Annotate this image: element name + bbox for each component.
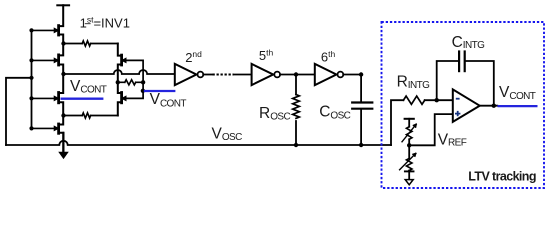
svg-text:VOSC: VOSC — [212, 125, 243, 143]
svg-text:2nd: 2nd — [185, 49, 202, 65]
svg-text:LTV tracking: LTV tracking — [468, 169, 536, 183]
svg-text:VREF: VREF — [438, 132, 467, 149]
svg-text:COSC: COSC — [319, 103, 350, 121]
svg-text:VCONT: VCONT — [499, 84, 536, 102]
svg-text:6th: 6th — [321, 49, 336, 64]
svg-text:5th: 5th — [259, 48, 274, 63]
svg-text:1st=INV1: 1st=INV1 — [80, 15, 130, 31]
svg-text:VCONT: VCONT — [70, 78, 107, 96]
svg-text:ROSC: ROSC — [259, 105, 290, 123]
svg-text:VCONT: VCONT — [150, 91, 187, 110]
svg-text:RINTG: RINTG — [397, 74, 431, 91]
svg-text:CINTG: CINTG — [452, 34, 486, 51]
